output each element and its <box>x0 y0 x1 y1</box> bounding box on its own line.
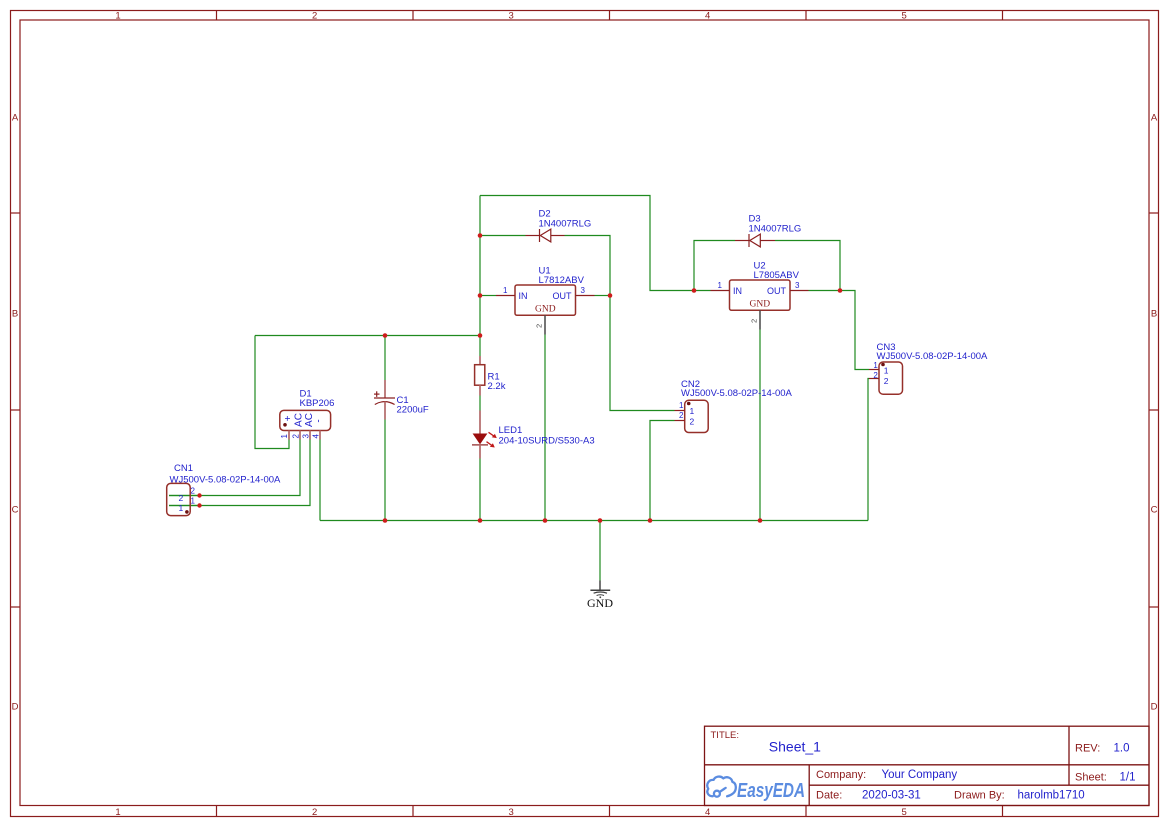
wire R1 top <box>479 336 481 357</box>
svg-text:1: 1 <box>191 496 196 505</box>
frame row letters left <box>12 112 19 712</box>
title block outline <box>705 726 1150 805</box>
resistor R1 <box>475 356 506 396</box>
wire C1 top <box>384 336 386 381</box>
svg-text:2: 2 <box>884 376 889 386</box>
wire D3 right segment down to U2 OUT node <box>775 241 840 291</box>
svg-text:1N4007RLG: 1N4007RLG <box>749 224 802 235</box>
svg-text:KBP206: KBP206 <box>300 398 335 409</box>
node junction dot rail CN2 <box>648 518 653 523</box>
svg-text:2: 2 <box>873 371 878 380</box>
svg-text:B: B <box>12 308 18 319</box>
D1 pin 1 line <box>288 431 290 440</box>
node junction dot +12 C1 <box>383 333 388 338</box>
CN2 pin 2 line <box>675 420 685 422</box>
svg-text:L7812ABV: L7812ABV <box>539 275 585 286</box>
LED1 cathode bar <box>472 444 488 446</box>
wire ground rail horizontal <box>320 520 868 522</box>
svg-text:2: 2 <box>312 11 317 22</box>
D3 triangle <box>750 234 761 247</box>
node junction dot rail C1 <box>383 518 388 523</box>
U2 body <box>730 280 791 310</box>
D1 pin 2 line <box>299 431 301 440</box>
svg-text:2: 2 <box>292 434 301 439</box>
svg-text:1/1: 1/1 <box>1120 771 1136 783</box>
wire D2 right segment to OUT node <box>565 236 611 296</box>
D1 body <box>280 410 331 430</box>
diode D2 <box>526 209 592 242</box>
svg-text:2: 2 <box>179 493 184 503</box>
svg-text:2.2k: 2.2k <box>488 381 506 392</box>
wire OUT node down to CN2 pin1 feed <box>610 296 675 411</box>
svg-text:1: 1 <box>679 401 684 410</box>
svg-text:1: 1 <box>718 281 723 290</box>
frame tick marks bottom <box>217 806 1003 817</box>
diode D3 <box>735 214 801 247</box>
svg-text:1: 1 <box>690 406 695 416</box>
frame tick marks top <box>217 11 1003 21</box>
D2 anode pin line <box>551 235 565 237</box>
D1 pin 3 line <box>309 431 311 440</box>
svg-text:3: 3 <box>581 286 586 295</box>
wire D2 left segment <box>480 235 526 237</box>
U2 pin 1 line <box>711 290 730 292</box>
EasyEDA logo cloud icon <box>707 777 736 797</box>
svg-text:2: 2 <box>750 319 759 323</box>
svg-text:Sheet_1: Sheet_1 <box>769 739 821 755</box>
connector CN2 <box>675 379 793 433</box>
ground middle arc <box>594 592 607 593</box>
C1 plus sign <box>374 393 380 395</box>
LED1 anode pin line <box>479 411 481 434</box>
svg-text:WJ500V-5.08-02P-14-00A: WJ500V-5.08-02P-14-00A <box>170 475 282 486</box>
wire LED1 bottom to ground rail <box>479 459 481 521</box>
LED LED1 <box>472 411 595 459</box>
svg-text:4: 4 <box>705 807 710 818</box>
wire D3 left vertical from U2 IN node <box>694 241 735 291</box>
D3 anode pin line <box>760 240 775 242</box>
CN2 pin 1 line <box>675 410 685 412</box>
node junction dot rail GND <box>598 518 603 523</box>
svg-text:OUT: OUT <box>767 286 787 296</box>
node pin dot CN1 pin2 <box>197 493 201 497</box>
svg-text:Your Company: Your Company <box>882 769 958 781</box>
D3 cathode pin line <box>735 240 749 242</box>
U1 pin 3 line <box>576 295 595 297</box>
LED1 triangle <box>473 434 488 445</box>
svg-text:2: 2 <box>312 807 317 818</box>
frame tick marks left <box>11 213 21 607</box>
title block row divider 2 <box>809 784 1149 786</box>
svg-text:LED1: LED1 <box>499 425 523 436</box>
node pin dot CN1 pin1 <box>197 503 201 507</box>
R1 bottom pin line <box>479 385 481 395</box>
node junction dot rail LED1 <box>478 518 483 523</box>
LED1 cathode pin line <box>479 445 481 459</box>
frame column numbers bottom <box>115 807 906 818</box>
node junction dot U2 IN <box>692 288 697 293</box>
svg-text:IN: IN <box>519 291 528 301</box>
wire D1 pin2 to CN1 pin2 <box>169 440 300 496</box>
svg-text:Company:: Company: <box>816 769 866 781</box>
svg-text:GND: GND <box>535 305 556 315</box>
svg-text:GND: GND <box>750 300 771 310</box>
op-amp-style box regulator U2 <box>711 261 809 330</box>
wire R1 bottom to LED1 top <box>479 396 481 411</box>
wire U2 OUT node to CN3 pin1 <box>840 291 869 370</box>
wire left vertical from top rail to +12 node <box>479 196 481 336</box>
svg-text:3: 3 <box>302 434 311 439</box>
capacitor C1 polarized <box>374 380 429 420</box>
frame row letters right <box>1151 112 1158 712</box>
R1 body <box>475 365 485 386</box>
node junction dot U2 OUT <box>838 288 843 293</box>
svg-text:2: 2 <box>679 411 684 420</box>
svg-text:L7805ABV: L7805ABV <box>754 270 800 281</box>
svg-text:B: B <box>1151 308 1157 319</box>
ground top bar <box>590 589 610 591</box>
op-amp-style box regulator U1 <box>496 266 595 335</box>
node junction dot rail U1 GND <box>543 518 548 523</box>
svg-text:204-10SURD/S530-A3: 204-10SURD/S530-A3 <box>499 436 595 447</box>
connector CN3 <box>869 342 988 394</box>
wire GND symbol stem <box>599 521 601 581</box>
svg-text:IN: IN <box>733 286 742 296</box>
C1 positive plate <box>374 397 395 399</box>
svg-text:TITLE:: TITLE: <box>711 730 740 741</box>
frame column numbers top <box>115 11 906 22</box>
svg-text:EasyEDA: EasyEDA <box>737 780 805 802</box>
bridge rectifier D1 KBP206 <box>280 389 335 440</box>
C1 bottom pin line <box>384 402 386 420</box>
frame tick marks right <box>1149 213 1159 607</box>
R1 top pin line <box>479 356 481 365</box>
svg-text:3: 3 <box>795 281 800 290</box>
svg-text:1.0: 1.0 <box>1114 743 1130 755</box>
svg-text:Sheet:: Sheet: <box>1075 771 1107 783</box>
svg-text:WJ500V-5.08-02P-14-00A: WJ500V-5.08-02P-14-00A <box>681 388 793 399</box>
wire U1 GND pin to ground rail <box>544 335 546 521</box>
svg-text:5: 5 <box>902 807 907 818</box>
svg-text:4: 4 <box>705 11 710 22</box>
svg-text:GND: GND <box>587 596 613 610</box>
CN2 body <box>685 400 709 432</box>
svg-text:1: 1 <box>179 503 184 513</box>
CN1 body <box>167 483 191 515</box>
wire U1 pin1 stub wire <box>480 295 496 297</box>
svg-text:C: C <box>1151 504 1158 515</box>
CN3 pin 2 line <box>869 378 879 380</box>
CN1 pin 1 marker dot <box>185 510 189 514</box>
svg-text:1: 1 <box>115 807 120 818</box>
wire CN3 pin2 down to ground rail <box>868 379 869 521</box>
svg-text:A: A <box>1151 112 1158 123</box>
svg-text:2200uF: 2200uF <box>397 405 429 416</box>
svg-text:REV:: REV: <box>1075 743 1100 755</box>
wire top rail horizontal <box>480 196 694 291</box>
CN3 pin 1 marker dot <box>881 363 885 367</box>
D3 cathode bar <box>748 234 750 247</box>
svg-text:D: D <box>12 701 19 712</box>
svg-text:1: 1 <box>873 361 878 370</box>
D2 cathode pin line <box>526 235 540 237</box>
svg-text:CN1: CN1 <box>174 463 193 474</box>
D1 pin 4 line <box>319 431 321 440</box>
svg-text:2: 2 <box>535 324 544 328</box>
wire +12 horizontal rail <box>255 335 480 337</box>
svg-text:1: 1 <box>280 434 289 439</box>
svg-text:1: 1 <box>115 11 120 22</box>
svg-text:5: 5 <box>902 11 907 22</box>
ground pin stem <box>599 581 601 591</box>
U1 pin 1 line <box>496 295 515 297</box>
svg-text:harolmb1710: harolmb1710 <box>1018 790 1085 802</box>
svg-text:-: - <box>314 419 325 422</box>
svg-text:3: 3 <box>509 11 514 22</box>
node junction dot U1 IN <box>478 293 483 298</box>
svg-text:C: C <box>12 504 19 515</box>
svg-text:A: A <box>12 112 19 123</box>
wire C1 bottom to ground rail <box>384 420 386 521</box>
svg-text:Drawn By:: Drawn By: <box>954 790 1005 802</box>
wire CN1 pin1 stub <box>169 505 200 507</box>
connector CN1 <box>167 463 281 516</box>
wire D1 pin4 to ground rail <box>319 440 321 521</box>
D1 pin 1 marker dot <box>283 423 287 427</box>
CN3 pin 1 line <box>869 369 879 371</box>
svg-text:OUT: OUT <box>553 291 573 301</box>
svg-text:1: 1 <box>503 286 508 295</box>
title block logo column divider <box>808 765 810 806</box>
node junction dot D2 left <box>478 233 483 238</box>
U1 body <box>515 285 576 315</box>
title block REV column divider <box>1068 726 1070 785</box>
LED1 emission arrows <box>487 432 497 447</box>
svg-text:3: 3 <box>509 807 514 818</box>
wire D1 pin3 to CN1 pin1 <box>169 440 310 506</box>
ground symbol GND <box>587 581 613 610</box>
wire CN1 pin2 stub <box>169 495 200 497</box>
node junction dot +12 R1 <box>478 333 483 338</box>
svg-text:2020-03-31: 2020-03-31 <box>862 790 921 802</box>
CN3 body <box>879 362 903 394</box>
svg-text:1: 1 <box>884 366 889 376</box>
CN2 pin 1 marker dot <box>687 402 691 406</box>
svg-text:Date:: Date: <box>816 790 842 802</box>
wire left loop vertical <box>255 336 289 449</box>
svg-text:1N4007RLG: 1N4007RLG <box>539 219 592 230</box>
svg-text:2: 2 <box>690 416 695 426</box>
C1 top pin line <box>384 380 386 398</box>
node junction dot U1 OUT <box>608 293 613 298</box>
wire U1 pin3 to OUT node <box>595 295 611 297</box>
D2 triangle <box>540 229 551 242</box>
ground point <box>599 596 601 598</box>
ground lower arc <box>597 594 604 597</box>
D2 cathode bar <box>539 229 541 242</box>
svg-text:4: 4 <box>312 434 321 439</box>
svg-text:AC: AC <box>294 413 305 427</box>
U1 pin 2 line <box>544 315 546 334</box>
U2 pin 3 line <box>790 290 809 292</box>
svg-text:WJ500V-5.08-02P-14-00A: WJ500V-5.08-02P-14-00A <box>877 351 989 362</box>
svg-text:+: + <box>283 415 294 421</box>
wire CN2 pin2 down to ground rail <box>650 421 675 521</box>
C1 negative curved plate <box>375 402 395 405</box>
svg-text:D: D <box>1151 701 1158 712</box>
node junction dot rail U2 GND <box>758 518 763 523</box>
wire U2 pin1 stub wire <box>694 290 711 292</box>
title block row divider 1 <box>705 764 1150 766</box>
wire U2 pin3 to OUT node <box>809 290 841 292</box>
svg-text:2: 2 <box>191 486 196 495</box>
U2 pin 2 line <box>759 310 761 329</box>
wire U2 GND pin to ground rail <box>759 330 761 521</box>
